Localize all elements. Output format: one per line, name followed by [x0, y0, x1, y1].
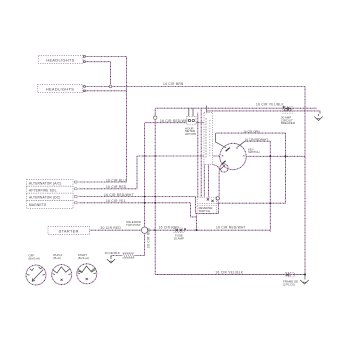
svg-text:16 CIR YEL/BLK: 16 CIR YEL/BLK	[256, 103, 284, 107]
ground G2	[107, 256, 115, 263]
svg-text:SWITCH: SWITCH	[199, 209, 210, 213]
svg-text:16 CIR YEL/BLK: 16 CIR YEL/BLK	[215, 270, 243, 274]
svg-text:STARTER: STARTER	[59, 230, 79, 234]
key position START circle	[77, 264, 97, 284]
svg-text:HEADLIGHTS: HEADLIGHTS	[46, 88, 74, 92]
svg-text:16 CIR RED: 16 CIR RED	[147, 227, 151, 248]
junction dot fuse line x196.5	[196, 229, 198, 231]
accessory bus vertical x155	[155, 108, 305, 274]
solenoid coil drop wire	[134, 233, 145, 255]
svg-text:OPTION: OPTION	[185, 132, 196, 136]
svg-text:20 AMP: 20 AMP	[174, 236, 184, 240]
svg-text:16 CIR RED/WHT: 16 CIR RED/WHT	[245, 138, 269, 142]
junction dot bottom right	[304, 274, 306, 276]
ground G1	[314, 114, 322, 121]
wire alternator DC	[79, 197, 219, 214]
alternator AC box	[27, 179, 73, 186]
wire HL1 top loop to HL2 bottom	[85, 57, 126, 91]
wire G from switch down	[218, 171, 220, 197]
wire magneto	[79, 203, 197, 217]
keyed connector terminal circle	[216, 197, 219, 200]
svg-text:(B+G+A): (B+G+A)	[29, 256, 40, 260]
starter box	[48, 227, 90, 235]
solenoid post circle	[141, 227, 147, 233]
wire HL1 bottom to node	[85, 62, 110, 85]
key switch circle	[220, 143, 246, 172]
wire A orange circuit	[216, 133, 286, 203]
junction dot fuse line x155	[154, 229, 156, 231]
engine box terminal connectors	[75, 181, 78, 204]
wire coil to ground	[111, 256, 123, 258]
wire keyed connector branch to fuse line	[196, 215, 198, 231]
svg-text:(B+A): (B+A)	[53, 256, 61, 260]
breaker line lower	[207, 111, 320, 114]
verticals below column	[198, 108, 209, 197]
svg-text:30 CIR RED: 30 CIR RED	[101, 226, 122, 230]
svg-text:TOP POST: TOP POST	[126, 223, 141, 227]
wire vertical x144.6	[144, 123, 146, 227]
fuse line from solenoid to riser	[148, 230, 270, 232]
svg-text:(2 PLCS): (2 PLCS)	[283, 283, 295, 287]
key position RUN circle	[52, 265, 72, 285]
node junction circle on BRN wire	[109, 85, 112, 88]
ground G3	[300, 275, 308, 285]
svg-text:16 CIR BLU: 16 CIR BLU	[106, 178, 126, 182]
bus y156 right to switch M	[213, 155, 221, 157]
circuit breaker CB1	[283, 106, 293, 113]
connector column bottom curve to switch	[213, 165, 220, 172]
interlock connector column	[204, 113, 213, 165]
headlight HL1 box	[39, 56, 86, 64]
wire B red/wht circuit	[245, 141, 270, 230]
alternator DC box	[27, 193, 73, 200]
svg-text:(B+S+A): (B+S+A)	[78, 256, 89, 260]
junction dots x144.6	[144, 155, 146, 157]
keyed connector label box	[197, 205, 216, 213]
wire 14 CIR BRN main run	[85, 87, 305, 275]
svg-text:16 CIR RED/WHT: 16 CIR RED/WHT	[160, 119, 190, 123]
svg-text:16 CIR ORN: 16 CIR ORN	[243, 130, 259, 134]
wire afterfire sol to y156 bus	[79, 156, 138, 189]
svg-text:ALTERNATOR (A/C): ALTERNATOR (A/C)	[29, 181, 61, 185]
svg-text:SWITCH: SWITCH	[248, 150, 259, 154]
frame ground connector	[286, 273, 295, 277]
svg-text:16 CIR RED/WHT: 16 CIR RED/WHT	[104, 193, 134, 197]
svg-text:16 CIR YEL: 16 CIR YEL	[106, 199, 126, 203]
wire C switch to battery bus	[248, 155, 305, 157]
fuse F1	[173, 228, 186, 233]
wire starter to solenoid post	[90, 229, 142, 231]
bus y156 left section	[137, 155, 204, 157]
bottom wire yel/blk	[155, 274, 305, 276]
svg-text:16 CIR RED: 16 CIR RED	[159, 225, 180, 229]
key position OFF circle	[26, 265, 46, 285]
svg-text:AFTERFIRE SOL.: AFTERFIRE SOL.	[29, 188, 58, 192]
svg-text:BREAKER: BREAKER	[281, 121, 295, 125]
connector top pin	[206, 106, 208, 113]
breaker line top	[155, 107, 317, 109]
svg-text:MAGNETO: MAGNETO	[29, 203, 47, 207]
svg-text:HEADLIGHTS: HEADLIGHTS	[46, 59, 74, 63]
magneto box	[27, 200, 73, 208]
wire y122.7 harness feed	[145, 122, 204, 124]
svg-text:16 CIR RED: 16 CIR RED	[106, 185, 127, 189]
hour meter component	[187, 108, 196, 125]
solenoid coil	[123, 253, 135, 258]
headlight HL2 box	[38, 85, 86, 93]
key switch terminals and letters	[216, 133, 248, 170]
svg-text:14 CIR BRN: 14 CIR BRN	[163, 82, 184, 86]
svg-text:16 CIR BLK: 16 CIR BLK	[105, 251, 120, 255]
svg-text:16 CIR RED/WHT: 16 CIR RED/WHT	[216, 226, 246, 230]
junction dots right area	[269, 155, 271, 157]
svg-text:ALTERNATOR (DC): ALTERNATOR (DC)	[29, 196, 61, 200]
keyed connector (reverse switch)	[197, 197, 216, 203]
wire alternator AC to headlight bus	[79, 91, 127, 182]
terminal circle on bus	[154, 116, 157, 119]
afterfire sol box	[27, 186, 73, 193]
